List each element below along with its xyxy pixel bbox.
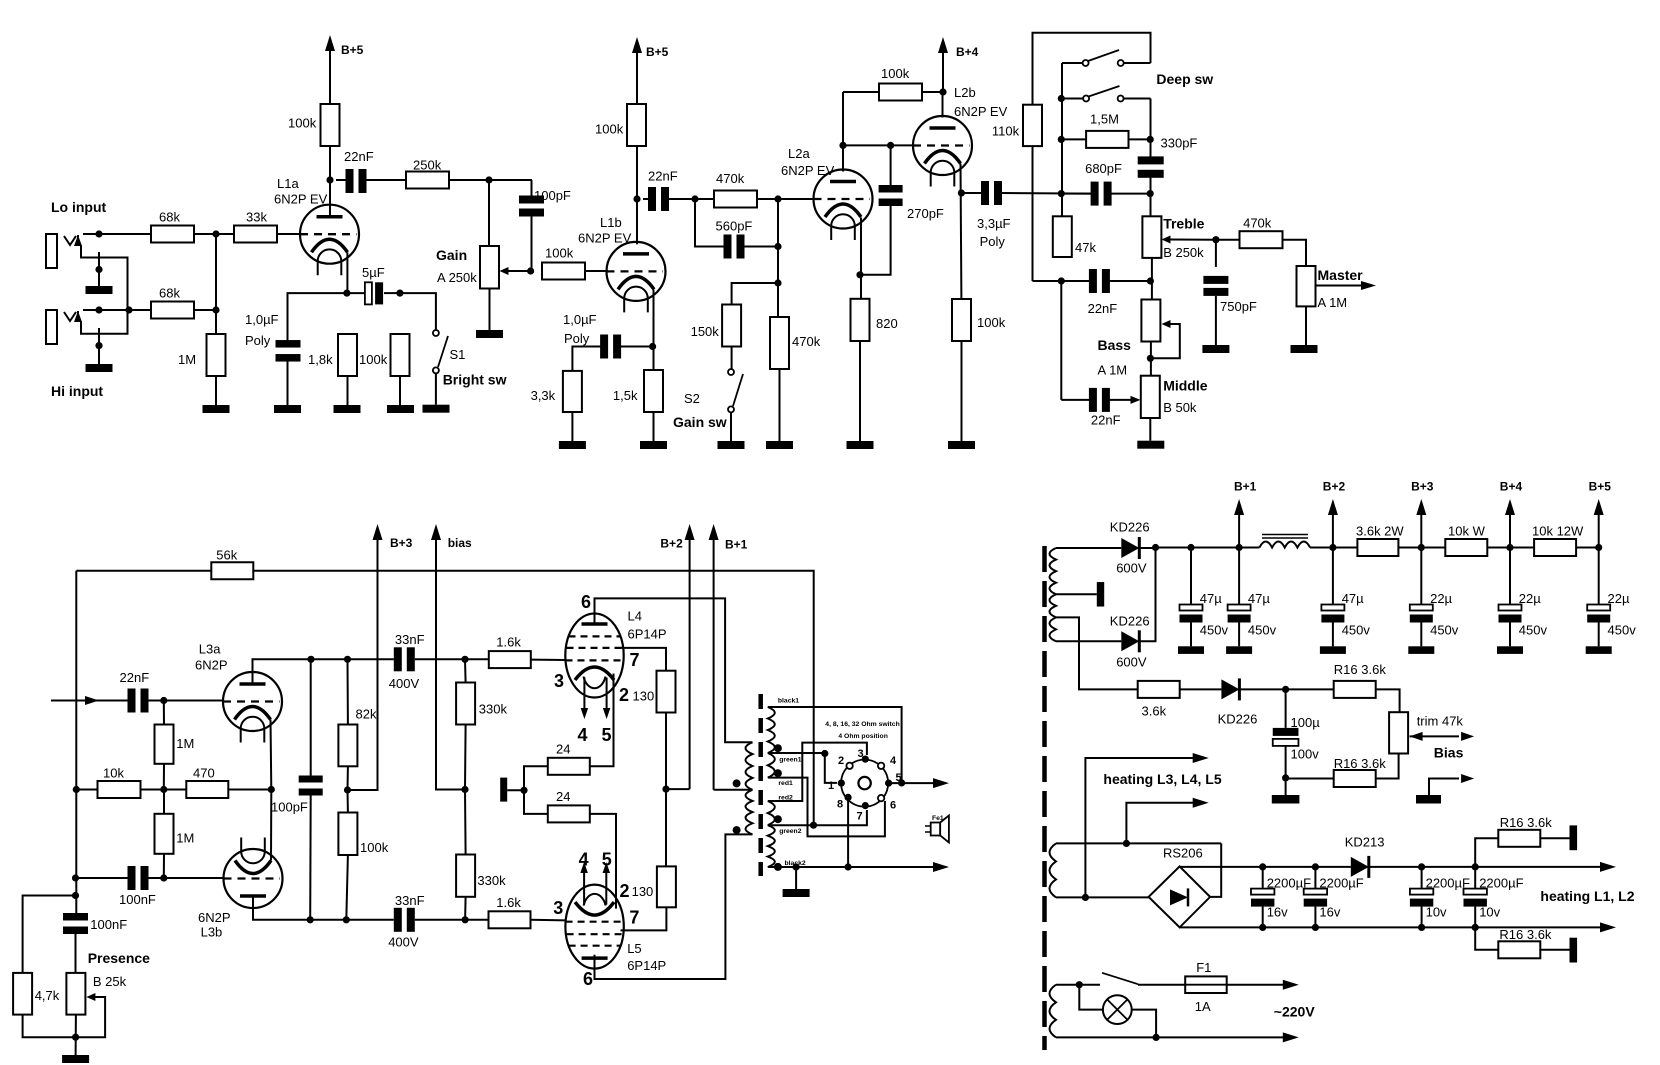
svg-text:4: 4 [890, 755, 897, 767]
svg-text:470k: 470k [792, 334, 821, 349]
svg-text:B+5: B+5 [1589, 479, 1612, 493]
svg-text:22µ: 22µ [1519, 591, 1541, 606]
svg-text:1A: 1A [1195, 999, 1211, 1014]
svg-text:B 50k: B 50k [1163, 400, 1197, 415]
svg-text:22µ: 22µ [1608, 591, 1630, 606]
svg-text:B 25k: B 25k [93, 974, 127, 989]
svg-text:KD213: KD213 [1345, 835, 1385, 850]
svg-text:KD226: KD226 [1218, 712, 1258, 727]
svg-text:L1a: L1a [277, 176, 299, 191]
svg-text:100k: 100k [881, 66, 910, 81]
svg-text:450v: 450v [1248, 623, 1277, 638]
svg-text:6N2P: 6N2P [195, 658, 228, 673]
svg-text:heating L1, L2: heating L1, L2 [1540, 888, 1634, 904]
svg-text:8: 8 [837, 799, 843, 811]
svg-text:1,0µF: 1,0µF [245, 312, 279, 327]
svg-text:B 250k: B 250k [1163, 245, 1204, 260]
svg-text:S1: S1 [450, 347, 466, 362]
svg-text:RS206: RS206 [1163, 846, 1203, 861]
svg-text:B+3: B+3 [390, 536, 413, 550]
svg-text:100k: 100k [288, 116, 317, 131]
svg-text:4,7k: 4,7k [35, 988, 60, 1003]
svg-text:450v: 450v [1608, 623, 1637, 638]
svg-text:22µ: 22µ [1430, 591, 1452, 606]
svg-text:1M: 1M [178, 352, 196, 367]
svg-text:330pF: 330pF [1161, 136, 1198, 151]
svg-text:red2: red2 [778, 795, 793, 802]
svg-text:1M: 1M [176, 831, 194, 846]
svg-text:Treble: Treble [1163, 216, 1204, 232]
svg-text:22nF: 22nF [1088, 301, 1118, 316]
svg-text:S2: S2 [684, 391, 700, 406]
svg-text:bias: bias [448, 536, 472, 550]
svg-text:L2b: L2b [954, 85, 976, 100]
svg-text:A 250k: A 250k [437, 270, 477, 285]
svg-text:22nF: 22nF [648, 169, 678, 184]
svg-text:600V: 600V [1116, 561, 1147, 576]
svg-text:A 1M: A 1M [1098, 363, 1128, 378]
svg-text:22nF: 22nF [344, 149, 374, 164]
svg-text:Bias: Bias [1434, 745, 1464, 761]
svg-text:Fe1: Fe1 [932, 815, 944, 822]
svg-text:black1: black1 [778, 698, 799, 705]
svg-text:Gain: Gain [436, 247, 467, 263]
svg-text:B+4: B+4 [956, 45, 979, 59]
svg-text:R16 3.6k: R16 3.6k [1334, 662, 1387, 677]
svg-text:110k: 110k [992, 124, 1020, 139]
svg-text:33k: 33k [246, 210, 267, 225]
svg-text:250k: 250k [413, 158, 442, 173]
svg-text:7: 7 [629, 908, 639, 928]
svg-text:3: 3 [554, 671, 564, 691]
svg-text:6P14P: 6P14P [627, 958, 666, 973]
svg-text:Poly: Poly [980, 234, 1006, 249]
svg-text:Master: Master [1318, 267, 1364, 283]
svg-text:47k: 47k [1075, 240, 1096, 255]
svg-text:10v: 10v [1479, 905, 1500, 920]
svg-text:560pF: 560pF [716, 219, 753, 234]
svg-text:47µ: 47µ [1200, 591, 1222, 606]
svg-text:470k: 470k [716, 171, 745, 186]
svg-text:B+5: B+5 [341, 43, 364, 57]
svg-text:33nF: 33nF [395, 893, 425, 908]
svg-text:100pF: 100pF [271, 800, 308, 815]
svg-text:2200µF: 2200µF [1479, 876, 1523, 891]
svg-text:10k W: 10k W [1448, 524, 1486, 539]
svg-text:56k: 56k [216, 548, 237, 563]
svg-text:L3a: L3a [199, 642, 221, 657]
svg-text:L1b: L1b [600, 215, 622, 230]
svg-text:3,3µF: 3,3µF [977, 216, 1011, 231]
svg-text:680pF: 680pF [1085, 161, 1122, 176]
svg-text:47µ: 47µ [1248, 591, 1270, 606]
svg-text:6: 6 [583, 969, 593, 989]
svg-text:2: 2 [620, 881, 630, 901]
svg-text:Gain sw: Gain sw [673, 414, 727, 430]
svg-text:red1: red1 [778, 780, 793, 787]
svg-text:5µF: 5µF [362, 265, 385, 280]
svg-text:100k: 100k [595, 122, 624, 137]
svg-text:Poly: Poly [245, 333, 271, 348]
svg-text:F1: F1 [1196, 960, 1211, 975]
svg-text:24: 24 [556, 789, 570, 804]
svg-text:470k: 470k [1243, 216, 1272, 231]
svg-text:1.6k: 1.6k [496, 895, 521, 910]
svg-text:5: 5 [602, 725, 612, 745]
svg-text:100k: 100k [545, 246, 574, 261]
svg-text:L3b: L3b [201, 925, 223, 940]
svg-text:3: 3 [858, 748, 864, 760]
svg-text:1: 1 [828, 780, 834, 792]
svg-text:Presence: Presence [88, 950, 150, 966]
svg-text:6: 6 [581, 592, 591, 612]
svg-text:~220V: ~220V [1274, 1004, 1316, 1020]
svg-text:6N2P EV: 6N2P EV [781, 163, 835, 178]
svg-text:10k 12W: 10k 12W [1532, 524, 1584, 539]
svg-text:100k: 100k [359, 352, 388, 367]
svg-text:7: 7 [857, 811, 863, 823]
svg-text:trim 47k: trim 47k [1417, 714, 1464, 729]
svg-text:A 1M: A 1M [1318, 295, 1348, 310]
svg-text:10v: 10v [1426, 905, 1447, 920]
svg-text:B+1: B+1 [725, 538, 748, 552]
svg-text:330k: 330k [479, 702, 508, 717]
svg-text:B+1: B+1 [1234, 479, 1257, 493]
svg-text:B+5: B+5 [646, 45, 669, 59]
svg-text:R16 3.6k: R16 3.6k [1334, 756, 1387, 771]
svg-text:130: 130 [632, 884, 654, 899]
svg-text:4, 8, 16, 32 Ohm switch: 4, 8, 16, 32 Ohm switch [825, 721, 899, 728]
svg-text:600V: 600V [1116, 655, 1147, 670]
svg-text:82k: 82k [356, 707, 377, 722]
svg-text:400V: 400V [388, 935, 419, 950]
svg-text:3,3k: 3,3k [531, 388, 556, 403]
svg-text:Poly: Poly [564, 331, 590, 346]
svg-text:24: 24 [556, 742, 570, 757]
svg-text:4 Ohm position: 4 Ohm position [838, 733, 887, 740]
svg-text:1,5k: 1,5k [613, 388, 638, 403]
svg-text:6: 6 [890, 800, 896, 812]
svg-text:2: 2 [838, 755, 844, 767]
svg-text:3.6k 2W: 3.6k 2W [1356, 524, 1404, 539]
svg-text:100nF: 100nF [90, 917, 127, 932]
svg-text:Hi input: Hi input [51, 383, 103, 399]
svg-text:16v: 16v [1319, 905, 1340, 920]
svg-text:KD226: KD226 [1110, 520, 1150, 535]
svg-text:green2: green2 [779, 828, 802, 835]
svg-text:100v: 100v [1291, 747, 1320, 762]
svg-text:2200µF: 2200µF [1319, 876, 1363, 891]
svg-text:3: 3 [553, 898, 563, 918]
svg-text:470: 470 [193, 766, 215, 781]
svg-text:Bright sw: Bright sw [443, 372, 507, 388]
svg-text:3.6k: 3.6k [1142, 704, 1167, 719]
svg-text:6N2P EV: 6N2P EV [954, 104, 1008, 119]
svg-text:100k: 100k [360, 840, 389, 855]
svg-text:10k: 10k [103, 766, 124, 781]
svg-text:100k: 100k [977, 315, 1006, 330]
svg-text:6N2P: 6N2P [198, 910, 231, 925]
svg-text:100µ: 100µ [1291, 715, 1321, 730]
svg-text:Lo input: Lo input [51, 199, 107, 215]
svg-text:6P14P: 6P14P [628, 627, 667, 642]
svg-text:47µ: 47µ [1342, 591, 1364, 606]
svg-text:2: 2 [619, 685, 629, 705]
svg-text:L2a: L2a [788, 146, 810, 161]
svg-text:400V: 400V [389, 676, 420, 691]
svg-text:130: 130 [633, 689, 655, 704]
svg-text:Bass: Bass [1098, 337, 1132, 353]
svg-text:L4: L4 [628, 609, 642, 624]
svg-text:Deep sw: Deep sw [1156, 71, 1213, 87]
svg-text:6N2P EV: 6N2P EV [578, 231, 632, 246]
svg-text:black2: black2 [785, 860, 806, 867]
svg-text:R16 3.6k: R16 3.6k [1500, 815, 1553, 830]
svg-text:1,8k: 1,8k [308, 352, 333, 367]
svg-text:270pF: 270pF [907, 206, 944, 221]
svg-text:22nF: 22nF [120, 670, 150, 685]
svg-text:750pF: 750pF [1220, 299, 1257, 314]
svg-text:1,5M: 1,5M [1090, 112, 1119, 127]
svg-text:820: 820 [876, 316, 898, 331]
svg-text:450v: 450v [1519, 623, 1548, 638]
svg-text:Middle: Middle [1163, 378, 1208, 394]
svg-text:7: 7 [630, 650, 640, 670]
svg-text:1M: 1M [176, 736, 194, 751]
svg-text:450v: 450v [1430, 623, 1459, 638]
svg-text:450v: 450v [1200, 623, 1229, 638]
svg-text:68k: 68k [159, 286, 180, 301]
svg-text:1.6k: 1.6k [496, 635, 521, 650]
svg-text:330k: 330k [477, 873, 506, 888]
svg-text:68k: 68k [159, 210, 180, 225]
svg-text:100pF: 100pF [534, 188, 571, 203]
svg-text:B+4: B+4 [1500, 479, 1523, 493]
svg-text:B+2: B+2 [1323, 479, 1346, 493]
svg-text:6N2P EV: 6N2P EV [274, 192, 328, 207]
svg-text:green1: green1 [779, 757, 802, 764]
svg-text:150k: 150k [691, 324, 720, 339]
svg-text:1,0µF: 1,0µF [563, 312, 597, 327]
svg-text:33nF: 33nF [395, 632, 425, 647]
svg-text:4: 4 [578, 725, 588, 745]
svg-text:100nF: 100nF [119, 892, 156, 907]
svg-text:R16 3.6k: R16 3.6k [1499, 927, 1552, 942]
svg-text:L5: L5 [627, 941, 641, 956]
svg-text:B+3: B+3 [1411, 479, 1434, 493]
svg-text:heating L3, L4, L5: heating L3, L4, L5 [1103, 771, 1221, 787]
svg-text:450v: 450v [1342, 623, 1371, 638]
svg-text:KD226: KD226 [1110, 614, 1150, 629]
svg-text:16v: 16v [1267, 905, 1288, 920]
svg-text:B+2: B+2 [660, 537, 683, 551]
svg-text:22nF: 22nF [1091, 413, 1121, 428]
